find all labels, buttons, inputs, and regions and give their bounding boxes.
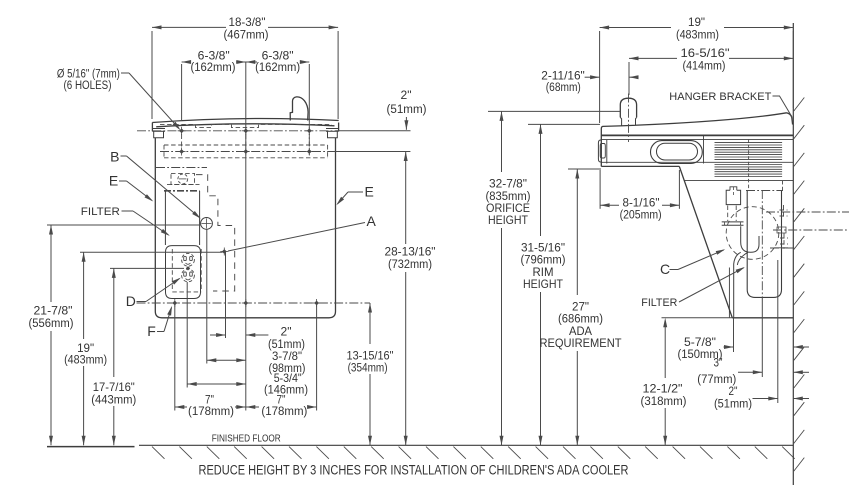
svg-text:16-5/16": 16-5/16" [681,46,730,60]
svg-text:6-3/8": 6-3/8" [262,49,294,63]
svg-text:2-11/16": 2-11/16" [541,68,585,82]
svg-text:17-7/16": 17-7/16" [93,380,135,394]
svg-text:2": 2" [401,88,412,102]
svg-text:3": 3" [714,356,723,370]
svg-text:REQUIREMENT: REQUIREMENT [540,336,623,350]
svg-text:6-3/8": 6-3/8" [198,49,230,63]
svg-text:(414mm): (414mm) [683,61,726,73]
svg-text:HEIGHT: HEIGHT [488,213,529,227]
svg-text:(483mm): (483mm) [676,29,719,41]
svg-text:Ø 5/16" (7mm): Ø 5/16" (7mm) [57,69,120,81]
svg-text:5-3/4": 5-3/4" [274,371,302,385]
svg-text:7": 7" [205,393,214,407]
svg-text:19": 19" [688,15,705,29]
svg-text:(354mm): (354mm) [348,363,388,375]
svg-text:F: F [147,323,156,339]
svg-text:27": 27" [572,299,589,313]
svg-text:B: B [110,149,119,165]
svg-text:18-3/8": 18-3/8" [229,15,266,29]
svg-text:(162mm): (162mm) [255,62,300,74]
svg-text:(178mm): (178mm) [261,406,307,418]
svg-text:2": 2" [729,384,738,398]
svg-text:FINISHED FLOOR: FINISHED FLOOR [212,434,281,445]
svg-text:12-1/2": 12-1/2" [643,381,683,395]
svg-text:28-13/16": 28-13/16" [385,244,436,258]
svg-text:E: E [365,184,374,200]
svg-text:(6 HOLES): (6 HOLES) [64,80,112,92]
svg-text:5-7/8": 5-7/8" [684,335,716,349]
svg-text:21-7/8": 21-7/8" [34,304,73,318]
svg-text:(443mm): (443mm) [91,395,136,407]
svg-text:FILTER: FILTER [641,297,677,309]
svg-text:(318mm): (318mm) [641,396,687,408]
svg-text:(467mm): (467mm) [224,29,269,41]
svg-text:(51mm): (51mm) [714,398,752,410]
svg-text:8-1/16": 8-1/16" [623,196,660,210]
svg-text:D: D [126,293,136,309]
svg-text:3-7/8": 3-7/8" [272,349,302,363]
svg-text:(68mm): (68mm) [546,82,581,94]
svg-text:(162mm): (162mm) [191,62,236,74]
svg-text:FILTER: FILTER [81,206,120,218]
svg-text:HANGER BRACKET: HANGER BRACKET [669,91,771,103]
svg-text:(51mm): (51mm) [387,104,427,116]
svg-text:13-15/16": 13-15/16" [347,349,394,363]
svg-text:HEIGHT: HEIGHT [523,277,564,291]
svg-text:19": 19" [77,341,94,355]
svg-text:A: A [367,213,377,229]
svg-text:(483mm): (483mm) [64,355,107,367]
svg-text:(556mm): (556mm) [29,318,74,330]
svg-text:E: E [109,173,118,189]
svg-text:C: C [660,261,670,277]
svg-text:(732mm): (732mm) [388,259,432,271]
svg-text:7": 7" [277,393,286,407]
svg-text:(178mm): (178mm) [188,406,234,418]
svg-text:(146mm): (146mm) [264,385,308,397]
svg-text:(205mm): (205mm) [620,210,662,222]
svg-text:32-7/8": 32-7/8" [489,177,527,191]
svg-text:REDUCE HEIGHT BY 3 INCHES FOR: REDUCE HEIGHT BY 3 INCHES FOR INSTALLATI… [199,462,629,477]
svg-text:31-5/16": 31-5/16" [521,241,565,255]
svg-text:2": 2" [281,325,292,339]
